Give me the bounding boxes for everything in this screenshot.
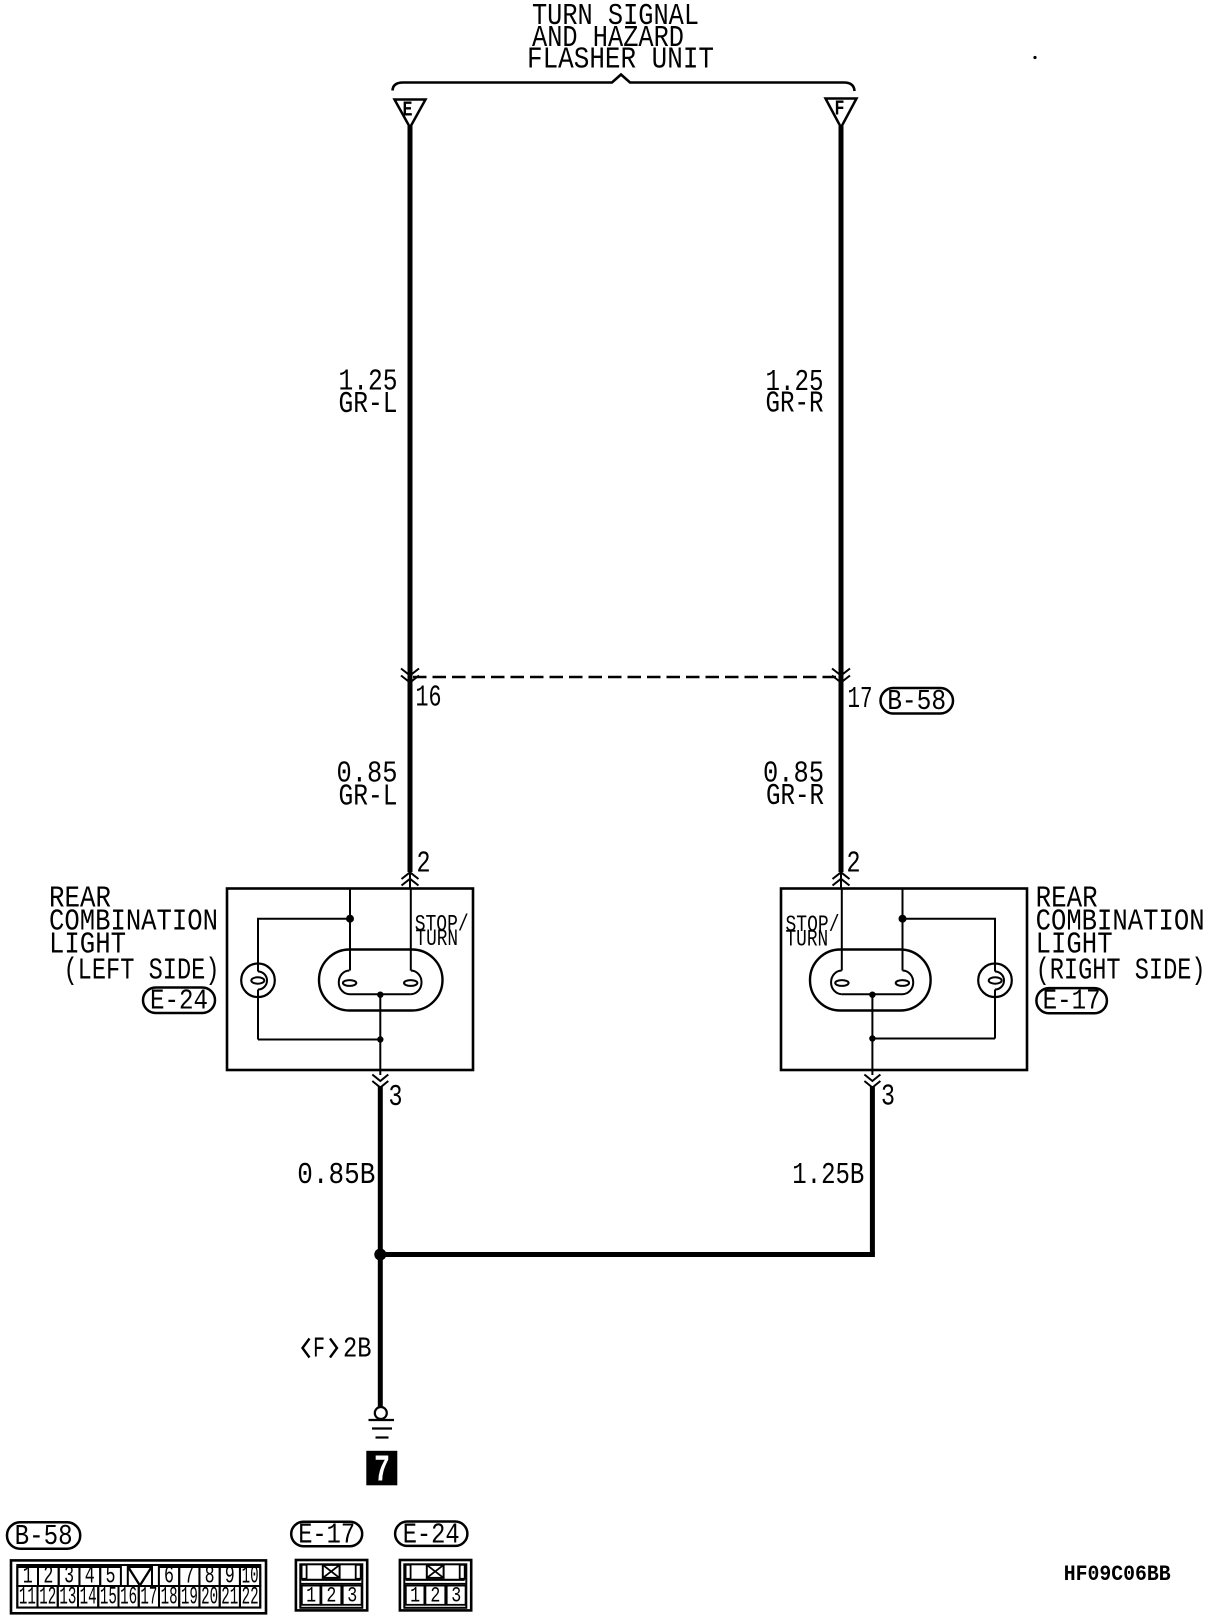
- svg-text:TURN: TURN: [786, 927, 829, 953]
- connector name B-58 (bottom legend label): [7, 1520, 80, 1553]
- connector E-17 pinout drawing: [296, 1560, 367, 1610]
- junction node (right bulb common): [869, 992, 875, 998]
- wire label (F)2B: [303, 1333, 372, 1366]
- wire: left turn signal feed from E: [408, 126, 413, 872]
- svg-text:1.25B: 1.25B: [792, 1158, 864, 1193]
- wire: common ground bus: [380, 1252, 875, 1257]
- svg-text:2: 2: [430, 1584, 440, 1609]
- svg-text:18: 18: [161, 1583, 178, 1612]
- svg-text:2: 2: [847, 847, 861, 882]
- svg-text:19: 19: [181, 1583, 198, 1612]
- junction node (right box ground): [869, 1035, 875, 1041]
- svg-text:3: 3: [881, 1080, 895, 1115]
- svg-text:GR-L: GR-L: [339, 780, 398, 815]
- label: turn signal and hazard flasher unit title: [527, 0, 714, 78]
- junction node (left box ground): [377, 1036, 383, 1042]
- junction node (left bulb common): [377, 992, 383, 998]
- svg-text:(LEFT SIDE): (LEFT SIDE): [64, 954, 220, 989]
- svg-text:22: 22: [242, 1583, 259, 1612]
- svg-text:17: 17: [140, 1583, 157, 1612]
- svg-text:B-58: B-58: [15, 1520, 73, 1553]
- wire: ground drop: [378, 1255, 383, 1408]
- right lamp connector pin 3 (chevrons): [864, 1070, 880, 1088]
- svg-text:F: F: [313, 1333, 325, 1366]
- right lamp connector pin 2 (chevrons): [833, 872, 850, 888]
- wire label 0.85 GR-R: [763, 757, 824, 815]
- wire: right ground lead: [870, 1086, 875, 1255]
- left lamp connector pin 2 (chevrons): [402, 872, 419, 888]
- wire: right turn signal feed from F: [839, 126, 844, 872]
- dashed connector line B-58: [413, 676, 838, 679]
- stop/turn bulb (left, dual filament oval): [319, 950, 443, 1011]
- svg-text:16: 16: [416, 681, 442, 716]
- svg-text:E-17: E-17: [1043, 985, 1101, 1018]
- connector name E-17 (stadium label at right box): [1036, 985, 1107, 1018]
- common ground wire inside left box: [379, 995, 381, 1070]
- svg-text:HF09C06BB: HF09C06BB: [1064, 1562, 1171, 1587]
- svg-text:B-58: B-58: [887, 685, 946, 718]
- tail bulb (right, single filament): [978, 919, 1012, 1039]
- svg-text:GR-R: GR-R: [766, 779, 824, 814]
- wire label 1.25 GR-L: [339, 365, 398, 423]
- wire branch to tail bulb (left): [258, 919, 350, 964]
- svg-text:16: 16: [120, 1583, 137, 1612]
- connector E-24 pinout drawing: [400, 1560, 471, 1610]
- junction node (ground bus): [374, 1249, 386, 1261]
- svg-text:GR-L: GR-L: [339, 387, 398, 422]
- wire branch to tail bulb (right): [903, 919, 996, 964]
- svg-text:20: 20: [201, 1583, 218, 1612]
- svg-text:13: 13: [59, 1583, 76, 1612]
- svg-text:3: 3: [389, 1080, 403, 1115]
- brace spanning flasher unit terminals: [393, 75, 855, 92]
- svg-text:F: F: [835, 99, 845, 122]
- left box: tail feed wire: [349, 889, 351, 971]
- B-58 keyway V: [129, 1568, 152, 1586]
- right box: tail feed wire: [902, 889, 904, 971]
- common ground wire inside right box: [871, 995, 873, 1070]
- label REAR COMBINATION LIGHT (RIGHT SIDE): [1036, 882, 1206, 989]
- label REAR COMBINATION LIGHT (LEFT SIDE): [49, 882, 220, 989]
- svg-text:E-24: E-24: [150, 985, 208, 1018]
- stop/turn bulb (right, dual filament oval): [810, 950, 931, 1011]
- connector B-58 pinout drawing: [11, 1560, 266, 1613]
- connector name E-24 (bottom legend label): [395, 1519, 467, 1552]
- svg-text:3: 3: [451, 1584, 461, 1609]
- left lamp connector pin 3 (chevrons): [372, 1070, 388, 1088]
- svg-text:E: E: [403, 100, 413, 123]
- svg-text:7: 7: [374, 1450, 390, 1493]
- rear combination light left side (box): [227, 889, 473, 1071]
- wire: left ground lead: [378, 1086, 383, 1257]
- svg-text:TURN: TURN: [415, 926, 458, 952]
- connector B-58 pin 17 junction (chevrons): [832, 669, 850, 683]
- left box: turn filament feed wire: [410, 889, 412, 971]
- connector B-58 pin 16 junction (chevrons): [401, 669, 419, 683]
- svg-text:1: 1: [410, 1584, 420, 1609]
- svg-text:0.85B: 0.85B: [297, 1158, 375, 1193]
- svg-text:15: 15: [100, 1583, 117, 1612]
- connector name E-24 (stadium label at left box): [143, 985, 215, 1018]
- wire label 0.85 GR-L: [337, 757, 398, 815]
- svg-text:2B: 2B: [343, 1333, 372, 1366]
- connector terminal E (triangle): [395, 100, 426, 128]
- junction node (left tail branch): [346, 915, 354, 923]
- svg-text:11: 11: [19, 1583, 36, 1612]
- svg-text:12: 12: [39, 1583, 56, 1612]
- svg-text:GR-R: GR-R: [766, 387, 824, 422]
- svg-text:2: 2: [417, 847, 431, 882]
- connector name B-58 (stadium label): [881, 685, 954, 718]
- connector terminal F (triangle): [826, 99, 857, 128]
- junction node (right tail branch): [899, 915, 907, 923]
- label STOP/TURN (left): [415, 912, 469, 953]
- svg-text:E-17: E-17: [298, 1519, 355, 1552]
- svg-text:14: 14: [80, 1583, 97, 1612]
- tail bulb (left, single filament): [241, 919, 275, 1040]
- svg-text:(RIGHT SIDE): (RIGHT SIDE): [1036, 954, 1206, 989]
- svg-text:17: 17: [848, 682, 873, 717]
- svg-text:E-24: E-24: [403, 1519, 460, 1552]
- stray scan dot: [1033, 56, 1036, 59]
- wire label 1.25 GR-R: [766, 365, 824, 422]
- ground reference number 7 (black box): [366, 1450, 397, 1493]
- connector name E-17 (bottom legend label): [291, 1519, 362, 1552]
- svg-text:21: 21: [221, 1583, 238, 1612]
- label STOP/TURN (right): [786, 912, 840, 953]
- wire from tail bulb to common (right): [872, 1038, 995, 1040]
- right box: turn filament feed wire: [841, 889, 843, 971]
- ground symbol: [369, 1407, 395, 1438]
- rear combination light right side (box): [781, 889, 1027, 1071]
- wire from tail bulb to common (left): [258, 1039, 380, 1041]
- B-58 pin numbers: [19, 1562, 259, 1612]
- svg-text:FLASHER UNIT: FLASHER UNIT: [527, 43, 714, 78]
